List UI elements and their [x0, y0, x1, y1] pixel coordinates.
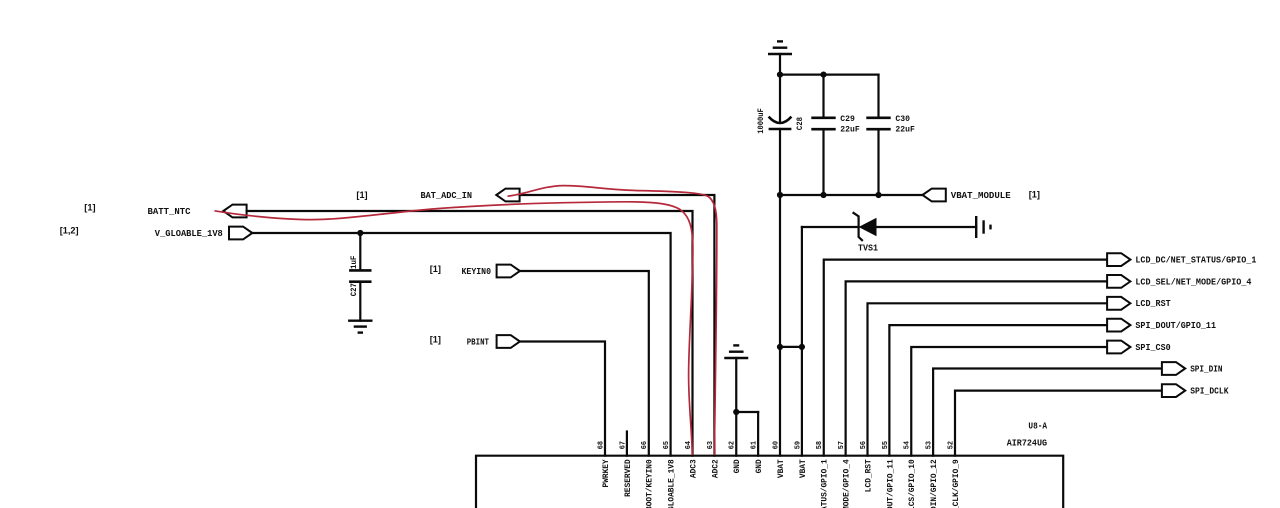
svg-text:C27: C27 — [350, 283, 359, 296]
port PBINT — [497, 335, 520, 348]
wire pin55 to SPI_DOUT/GPIO_11 — [889, 325, 1107, 456]
svg-text:55: 55 — [882, 441, 890, 449]
svg-text:SPI_DIN/GPIO_12: SPI_DIN/GPIO_12 — [930, 459, 939, 508]
svg-text:61: 61 — [751, 440, 759, 449]
svg-text:KEYIN0: KEYIN0 — [462, 266, 492, 277]
wire C27 bottom lead — [359, 282, 361, 321]
wire pin62 vertical — [735, 412, 737, 456]
port VBAT_MODULE — [923, 189, 946, 202]
wire BAT_ADC_IN to pin63 — [520, 195, 715, 456]
wire pin67 stub (RESERVED) — [626, 432, 628, 456]
svg-text:SPI_CS0: SPI_CS0 — [1135, 342, 1171, 353]
junction jumper / pin59 — [799, 344, 805, 350]
port SPI_DOUT/GPIO_11 — [1107, 319, 1130, 332]
svg-text:[1]: [1] — [430, 335, 441, 345]
red highlight trace BATT_NTC to ADC3 — [215, 202, 693, 455]
junction C27 tap — [357, 230, 363, 236]
svg-text:VBAT: VBAT — [799, 459, 808, 478]
wire gnd stem to top bus — [779, 54, 781, 75]
wire pin60 VBAT vertical — [779, 195, 781, 456]
svg-text:ADC2: ADC2 — [711, 459, 720, 478]
svg-text:SPI_CLK/GPIO_9: SPI_CLK/GPIO_9 — [952, 459, 961, 508]
wire pin53 to SPI_DIN — [933, 369, 1162, 456]
ground (top, above C28) — [768, 41, 792, 54]
junction VBAT bus / C28 — [777, 192, 783, 198]
svg-text:[1]: [1] — [356, 190, 367, 200]
svg-text:NET_MODE/GPIO_4: NET_MODE/GPIO_4 — [843, 459, 852, 508]
red highlight trace BAT_ADC_IN to ADC2 — [508, 186, 717, 455]
port SPI_DCLK — [1162, 384, 1185, 397]
svg-text:[1,2]: [1,2] — [60, 225, 79, 235]
svg-text:SPI_DOUT/GPIO_11: SPI_DOUT/GPIO_11 — [1135, 320, 1216, 331]
svg-text:NET_STATUS/GPIO_1: NET_STATUS/GPIO_1 — [821, 459, 830, 508]
wire C29 top lead — [822, 75, 824, 118]
svg-text:VBAT: VBAT — [777, 459, 786, 478]
svg-text:LCD_RST: LCD_RST — [1135, 298, 1171, 309]
svg-text:C29: C29 — [840, 114, 855, 124]
svg-text:RESERVED: RESERVED — [624, 459, 633, 497]
svg-text:SPI_DCLK: SPI_DCLK — [1190, 386, 1229, 397]
wire VBAT bus to port — [780, 194, 923, 196]
wire C29 bottom lead — [822, 129, 824, 195]
svg-text:V_GLOABLE_1V8: V_GLOABLE_1V8 — [155, 228, 223, 239]
svg-text:BATT_NTC: BATT_NTC — [148, 206, 191, 217]
port LCD_RST — [1107, 297, 1130, 310]
port LCD_DC/NET_STATUS/GPIO_1 — [1107, 253, 1130, 266]
svg-text:LCD_SEL/NET_MODE/GPIO_4: LCD_SEL/NET_MODE/GPIO_4 — [1135, 276, 1251, 287]
wire pin52 to SPI_DCLK — [955, 391, 1162, 456]
svg-text:58: 58 — [816, 441, 824, 449]
svg-text:VBAT_MODULE: VBAT_MODULE — [951, 190, 1011, 201]
ground (above pin 62) — [724, 345, 748, 358]
svg-text:LCD_DC/NET_STATUS/GPIO_1: LCD_DC/NET_STATUS/GPIO_1 — [1135, 255, 1256, 266]
svg-text:C28: C28 — [796, 117, 805, 130]
wire C30 bottom lead — [877, 129, 879, 195]
svg-text:GND: GND — [755, 459, 764, 473]
svg-text:1uF: 1uF — [350, 255, 359, 269]
svg-text:C30: C30 — [895, 114, 910, 124]
svg-text:SPI_DOUT/GPIO_11: SPI_DOUT/GPIO_11 — [886, 459, 895, 508]
junction jumper / pin60 — [777, 344, 783, 350]
junction VBAT bus / C29 — [820, 192, 826, 198]
wire pin59 VBAT vertical — [801, 227, 803, 456]
port LCD_SEL/NET_MODE/GPIO_4 — [1107, 275, 1130, 288]
svg-text:LCD_RST: LCD_RST — [865, 459, 874, 492]
svg-text:U8-A: U8-A — [1028, 421, 1047, 431]
wire BATT_NTC to pin64 — [247, 211, 693, 456]
svg-text:59: 59 — [794, 441, 802, 449]
capacitor C28 curved plate — [769, 117, 792, 123]
wire KEYIN0 to pin66 — [520, 271, 649, 456]
wire gnd jumper pins 62-61 — [736, 411, 758, 413]
capacitor C29 plates — [811, 118, 835, 129]
svg-text:[1]: [1] — [1029, 190, 1040, 200]
svg-text:SPI_LCS/GPIO_10: SPI_LCS/GPIO_10 — [908, 459, 917, 508]
svg-text:PWRKEY: PWRKEY — [602, 459, 611, 487]
wire pin56 to LCD_RST — [868, 303, 1108, 455]
wire C27 top lead — [359, 233, 361, 270]
svg-text:65: 65 — [663, 441, 671, 449]
port BATT_NTC — [223, 205, 246, 218]
svg-text:BAT_ADC_IN: BAT_ADC_IN — [421, 190, 473, 201]
svg-text:BOOT/KEYIN0: BOOT/KEYIN0 — [646, 459, 655, 508]
svg-text:AIR724UG: AIR724UG — [1007, 438, 1047, 448]
svg-text:1000uF: 1000uF — [757, 108, 766, 134]
svg-text:[1]: [1] — [430, 264, 441, 274]
port SPI_DIN — [1162, 362, 1185, 375]
svg-text:54: 54 — [904, 440, 912, 449]
op-amp U8-A AIR724UG outline — [476, 456, 1063, 508]
capacitor C30 plates — [866, 118, 890, 129]
wire gnd stem pin62 — [735, 358, 737, 412]
wire pin57 to LCD_SEL/NET_MODE/GPIO_4 — [846, 281, 1107, 455]
ground (right of TVS1) — [976, 216, 990, 238]
svg-text:52: 52 — [947, 441, 955, 449]
port V_GLOABLE_1V8 — [229, 227, 252, 240]
wire pin54 to SPI_CS0 — [911, 347, 1107, 456]
capacitor C27 plates — [349, 270, 371, 281]
capacitor C28 straight plate — [769, 128, 792, 131]
svg-text:62: 62 — [729, 441, 737, 449]
svg-text:TVS1: TVS1 — [858, 244, 879, 254]
wire VBAT jumper pins 60-59 — [780, 346, 802, 348]
svg-text:56: 56 — [860, 441, 868, 449]
svg-text:57: 57 — [838, 441, 846, 449]
junction VBAT bus / C30 — [875, 192, 881, 198]
wire pin58 to LCD_DC/NET_STATUS/GPIO_1 — [824, 260, 1107, 456]
junction top bus / C28 — [777, 72, 783, 78]
wire V_GLOABLE_1V8 to pin65 — [252, 233, 670, 456]
wire top bus C28-C30 — [780, 73, 879, 75]
svg-text:V_GLOABLE_1V8: V_GLOABLE_1V8 — [668, 459, 677, 508]
svg-text:SPI_DIN: SPI_DIN — [1190, 363, 1223, 374]
svg-text:PBINT: PBINT — [467, 336, 490, 347]
svg-text:22uF: 22uF — [840, 124, 859, 134]
wire PBINT to pin68 — [520, 342, 605, 456]
svg-text:[1]: [1] — [84, 203, 95, 213]
wire C28 bottom lead — [779, 129, 781, 195]
port BAT_ADC_IN — [496, 189, 519, 202]
wire TVS to ground — [877, 226, 977, 228]
port KEYIN0 — [497, 265, 520, 278]
wire pin61 vertical — [757, 412, 759, 456]
svg-text:53: 53 — [926, 441, 934, 449]
junction pin62 / gnd jumper — [733, 409, 739, 415]
wire TVS row — [802, 226, 859, 228]
wire C30 top lead — [877, 75, 879, 118]
port SPI_CS0 — [1107, 341, 1130, 354]
svg-text:22uF: 22uF — [895, 124, 914, 134]
svg-text:ADC3: ADC3 — [690, 459, 699, 478]
svg-text:60: 60 — [772, 441, 780, 449]
ground (below C27) — [348, 321, 372, 333]
svg-text:67: 67 — [619, 441, 627, 449]
diode TVS1 (zener) — [853, 212, 877, 241]
wire C28 top lead — [779, 75, 781, 122]
junction top bus / C29 — [820, 72, 826, 78]
svg-text:68: 68 — [597, 441, 605, 449]
svg-text:66: 66 — [641, 441, 649, 449]
svg-text:GND: GND — [733, 459, 742, 473]
